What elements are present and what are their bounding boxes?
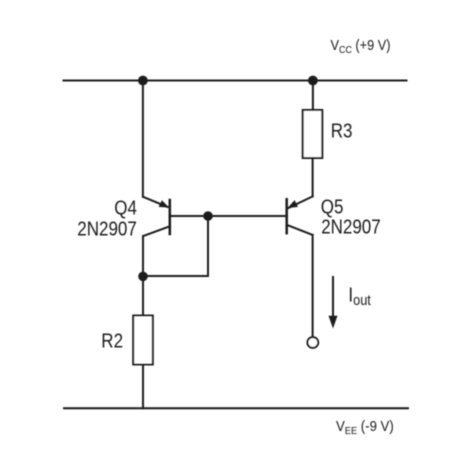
terminal output open circle [307,337,318,348]
wire Q4 collector down [142,236,144,276]
wire Q4 emitter from VCC rail [142,81,144,197]
node base junction [203,211,213,221]
resistor R3 [303,110,323,158]
svg-text:R3: R3 [331,119,353,142]
transistor Q4 base bar [169,200,172,234]
wire VCC rail [64,80,407,82]
node Q4 collector junction [138,272,148,282]
wire Q4 emitter diagonal [143,197,167,207]
wire Q5 emitter diagonal [288,196,312,208]
wire R2 to VEE rail [142,365,144,409]
wire VEE rail [64,407,408,409]
wire collector node to R2 [142,276,144,315]
wire Q5 collector down [312,235,314,337]
svg-text:2N2907: 2N2907 [77,217,137,240]
node VCC rail right [308,76,318,86]
wire R3 to Q5 emitter [312,158,314,196]
wire feedback down from base node [207,216,209,276]
svg-text:2N2907: 2N2907 [321,215,381,238]
resistor R2 [133,316,153,365]
transistor Q4 emitter arrow [159,200,170,207]
wire base junction to Q5 base [208,215,287,217]
transistor Q5 emitter arrow [287,200,298,208]
node VCC rail left [138,76,148,86]
current arrow Iout shaft [332,277,334,317]
transistor Q5 base bar [285,199,288,233]
svg-text:Q4: Q4 [114,196,137,219]
wire VCC to R3 [312,81,314,111]
svg-text:VEE (-9 V): VEE (-9 V) [336,417,394,437]
svg-text:R2: R2 [101,329,123,352]
wire Q4 collector diagonal [143,226,169,236]
wire Q4 base lead [170,215,208,217]
wire feedback horizontal to collector node [143,275,208,277]
wire Q5 collector diagonal [287,225,313,235]
current arrow Iout head [329,316,338,329]
